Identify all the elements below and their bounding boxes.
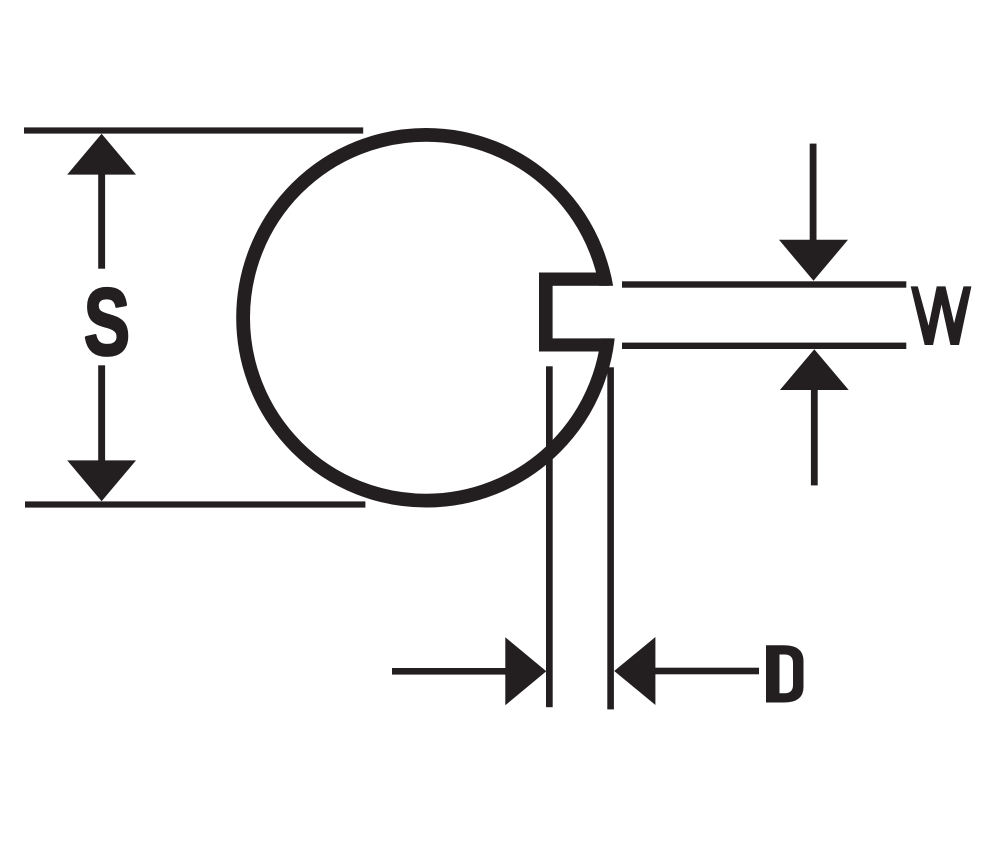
- D dimension left extension line: [546, 366, 553, 707]
- D dimension right shaft: [650, 668, 759, 675]
- svg-text:S: S: [84, 269, 130, 375]
- label S: [84, 269, 130, 375]
- label D: [766, 645, 804, 702]
- S dimension up arrowhead: [67, 134, 136, 175]
- ball circle outline: [243, 135, 609, 501]
- D dimension left-pointing arrowhead: [614, 637, 655, 705]
- W dimension top extension line: [622, 281, 906, 287]
- W dimension down arrowhead: [779, 240, 848, 281]
- S dimension lower shaft: [98, 365, 105, 465]
- W dimension bottom extension line: [622, 343, 906, 349]
- W dimension up arrowhead: [780, 349, 849, 390]
- W dimension lower shaft: [811, 386, 818, 485]
- D dimension right extension line: [607, 367, 614, 709]
- S dimension upper shaft: [98, 170, 105, 269]
- D dimension right-pointing arrowhead: [505, 637, 546, 705]
- slot bottom wall: [539, 338, 611, 351]
- white mask for slot opening: [553, 286, 620, 339]
- S dimension bottom extension line: [25, 501, 365, 507]
- S dimension down arrowhead: [67, 460, 136, 501]
- label W: [911, 286, 972, 345]
- D dimension left shaft: [392, 668, 510, 675]
- S dimension top extension line: [24, 127, 363, 133]
- slot top wall: [539, 273, 609, 286]
- slot left wall: [539, 273, 553, 352]
- W dimension upper shaft: [810, 144, 817, 244]
